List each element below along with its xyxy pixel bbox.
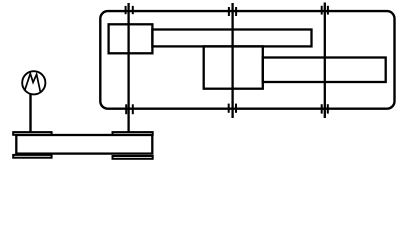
gear z2 on shaft II	[152, 30, 311, 47]
motor pulley top flange	[13, 132, 51, 135]
bearing shaft I bottom	[126, 104, 133, 114]
bearing shaft II top	[229, 7, 236, 16]
electric motor circle	[22, 71, 45, 94]
gear z4 on shaft III	[263, 58, 386, 83]
shaft I (input)	[127, 3, 129, 132]
motor pulley bottom flange	[13, 155, 51, 158]
gear z1 on shaft I	[109, 24, 153, 53]
bearing shaft II bottom	[229, 104, 236, 113]
driven pulley bottom flange	[113, 156, 153, 159]
gearbox housing	[100, 11, 394, 109]
bearing shaft III top	[322, 6, 328, 15]
letter M	[25, 74, 41, 93]
shaft II (intermediate)	[231, 3, 233, 118]
bearing shaft III bottom	[322, 104, 328, 113]
pinion z3 on shaft II	[204, 46, 263, 88]
bearing shaft I top	[126, 6, 133, 14]
motor shaft	[29, 94, 31, 132]
shaft III (output)	[324, 3, 326, 119]
belt loop	[16, 135, 152, 154]
driven pulley top flange	[113, 132, 153, 135]
